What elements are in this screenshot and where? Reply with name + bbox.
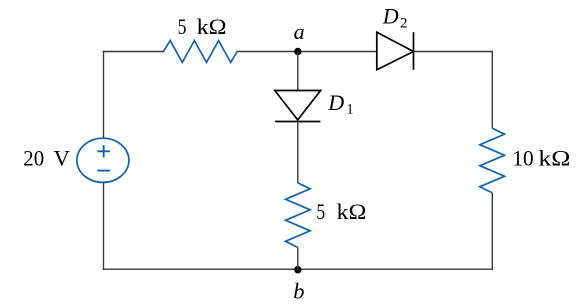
- wire top middle: [237, 51, 378, 53]
- svg-text:2: 2: [400, 15, 408, 31]
- resistor R2 5kohm middle: [286, 183, 311, 248]
- wire middle branch upper: [297, 52, 299, 92]
- wire left lower: [103, 182, 105, 270]
- svg-text:5kΩ: 5kΩ: [178, 14, 227, 39]
- diode D1: [275, 91, 321, 122]
- wire bottom: [103, 268, 493, 270]
- node a: [294, 48, 301, 55]
- node b: [294, 266, 301, 273]
- svg-text:a: a: [294, 19, 305, 44]
- wire right upper: [491, 51, 493, 129]
- svg-text:20V: 20V: [23, 146, 70, 171]
- svg-text:10kΩ: 10kΩ: [512, 146, 570, 171]
- resistor R1 5kohm top: [163, 41, 237, 63]
- wire top-right: [414, 51, 493, 53]
- wire left upper: [103, 51, 105, 138]
- wire middle lower: [297, 248, 299, 270]
- voltage source V1 20V: [77, 138, 129, 182]
- wire right lower: [491, 193, 493, 270]
- diode D2: [377, 32, 414, 70]
- svg-text:5kΩ: 5kΩ: [316, 199, 366, 224]
- svg-text:b: b: [293, 279, 304, 304]
- wire top-left horizontal: [103, 51, 164, 53]
- svg-text:1: 1: [346, 102, 353, 118]
- resistor R3 10kohm right: [480, 128, 505, 193]
- wire middle mid: [297, 122, 299, 184]
- svg-text:D: D: [327, 90, 344, 115]
- svg-text:D: D: [382, 3, 399, 28]
